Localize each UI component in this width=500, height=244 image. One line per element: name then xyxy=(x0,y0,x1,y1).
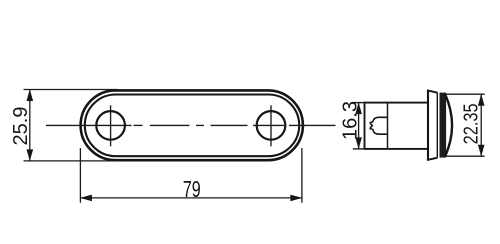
dimension 22.35: dimension line with arrows xyxy=(478,94,485,156)
right mounting hole xyxy=(257,111,286,140)
front view: inner housing outline (stadium) xyxy=(85,95,299,157)
dimension 79: text xyxy=(183,177,201,202)
dimension 25.9: text xyxy=(10,107,32,146)
dimension 16.3: dimension line with arrows xyxy=(355,102,362,149)
side view: connector plug profile xyxy=(370,117,388,134)
dimension 16.3: extension line stubs xyxy=(353,103,365,149)
svg-text:22.35: 22.35 xyxy=(459,103,482,144)
side view: lens dome arc xyxy=(445,95,452,156)
side view: mounting flange xyxy=(427,90,437,160)
dimension 79: extension lines xyxy=(80,148,302,203)
side view: lens rim (edge-on) xyxy=(440,93,447,158)
svg-text:25.9: 25.9 xyxy=(10,107,32,146)
dimension 16.3: text xyxy=(339,101,361,140)
svg-text:79: 79 xyxy=(183,177,201,202)
side view: body outline xyxy=(365,103,429,149)
dimension 22.35: text xyxy=(459,103,482,144)
dimension 79: dimension line with arrows xyxy=(80,195,302,202)
dimension 25.9: extension lines xyxy=(24,90,119,161)
svg-text:16.3: 16.3 xyxy=(339,101,361,140)
dimension 22.35: extension lines xyxy=(446,94,485,156)
right hole crosshair vertical xyxy=(270,105,272,146)
front view: outer housing outline (stadium) xyxy=(81,90,303,160)
left hole crosshair vertical xyxy=(110,105,112,146)
centerline (dash-dot) through front view xyxy=(46,124,336,126)
side view: internal divider line xyxy=(387,103,389,149)
dimension 25.9: dimension line with arrows xyxy=(27,89,34,161)
left mounting hole xyxy=(96,111,125,140)
